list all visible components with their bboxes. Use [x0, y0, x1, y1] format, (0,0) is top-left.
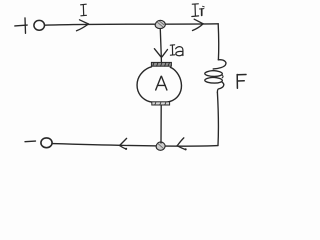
armature circle [137, 67, 181, 103]
terminal circle bottom (−) [41, 138, 52, 148]
node bottom junction [156, 142, 165, 150]
wire top [45, 24, 219, 25]
node top junction [155, 20, 165, 28]
wire right vertical upper [217, 24, 219, 60]
brush bottom [152, 102, 170, 105]
label I [81, 4, 87, 16]
minus terminal symbol [25, 140, 36, 143]
label If [192, 4, 204, 17]
arrow on top wire (current If) [193, 19, 204, 30]
wire right vertical lower [216, 92, 219, 145]
plus terminal symbol [15, 18, 27, 33]
arrow on bottom wire (pointing left) [177, 138, 187, 151]
label A (armature) [156, 76, 167, 90]
label Ia [170, 45, 175, 55]
brush top (hatched) [151, 62, 171, 66]
arrow on bottom wire left of junction (pointing left) [120, 138, 128, 150]
wire from node down to armature (with arrow Ia) [154, 29, 167, 61]
wire armature to bottom junction [160, 105, 162, 143]
arrow on top wire (current I) [77, 20, 89, 31]
wire bottom [52, 144, 218, 147]
field coil F [205, 60, 226, 93]
terminal circle top (+) [34, 20, 45, 30]
label F [237, 75, 246, 89]
